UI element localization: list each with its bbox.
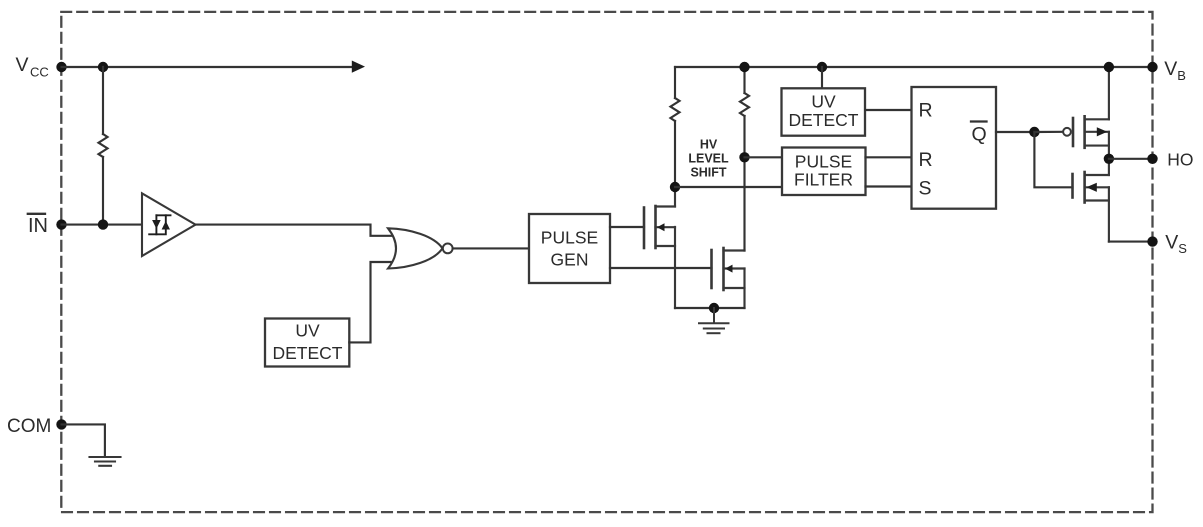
svg-text:S: S — [1178, 241, 1187, 256]
latch U3 (RRS latch) — [912, 87, 997, 209]
wire node A to PULSE FILTER S input — [675, 186, 782, 188]
wire buffer output to NOR input 1 (with jog) — [196, 225, 395, 236]
pin VS dot — [1147, 236, 1157, 246]
node B (Q2 drain) dot — [739, 152, 749, 162]
transistor Q4 (output NMOS) — [1073, 159, 1109, 242]
pin IN dot — [56, 219, 66, 229]
resistor R3 (VB rail to level-shift node B) — [743, 67, 745, 93]
node VB rail dot at UV DETECT — [817, 62, 827, 72]
svg-text:PULSE: PULSE — [541, 228, 598, 248]
U2 output inversion bubble — [443, 244, 453, 254]
wire Q4 source to VS — [1109, 241, 1153, 243]
svg-text:R: R — [919, 100, 933, 122]
svg-text:V: V — [1164, 58, 1177, 80]
svg-text:DETECT: DETECT — [273, 343, 343, 363]
svg-text:COM: COM — [7, 416, 51, 437]
wire UV DETECT to NOR input 2 — [349, 262, 394, 342]
node HO dot — [1104, 154, 1114, 164]
pin HO label — [1167, 149, 1193, 169]
pin VCC label — [16, 54, 49, 80]
node Q-bar junction dot — [1029, 127, 1039, 137]
pin VCC dot — [56, 62, 66, 72]
svg-text:SHIFT: SHIFT — [690, 166, 726, 180]
wire UV DETECT supply connection — [821, 67, 823, 89]
buffer U1 (schmitt trigger input buffer) — [142, 193, 196, 256]
pin IN label (overline IN) — [28, 215, 48, 237]
wire NOR output to PULSE GEN — [453, 247, 529, 249]
pin HO dot — [1147, 154, 1157, 164]
UV DETECT block (VB side) — [782, 88, 866, 135]
wire to Q3 gate bubble — [1034, 131, 1063, 133]
ground symbol (COM) — [90, 457, 121, 466]
wire VCC rail with arrow — [62, 66, 353, 68]
ground symbol (level shift) — [699, 308, 729, 333]
svg-text:B: B — [1177, 68, 1186, 83]
svg-text:LEVEL: LEVEL — [688, 152, 729, 166]
svg-text:V: V — [16, 54, 29, 76]
wire UV DETECT to latch R — [866, 109, 912, 111]
svg-text:HO: HO — [1167, 149, 1193, 169]
pin VS label — [1165, 232, 1187, 257]
wire COM to ground — [62, 424, 105, 456]
svg-text:FILTER: FILTER — [794, 169, 853, 189]
node VB rail dot at R3 — [739, 62, 749, 72]
wire PULSE GEN top output to Q1 gate — [610, 226, 644, 228]
resistor R1 (VCC to IN) — [102, 67, 104, 134]
svg-text:DETECT: DETECT — [789, 110, 859, 130]
svg-text:GEN: GEN — [551, 250, 589, 270]
label HV LEVEL SHIFT — [688, 138, 729, 180]
pin COM dot — [56, 419, 66, 429]
transistor Q2 (level-shift NMOS) — [712, 248, 745, 308]
svg-text:CC: CC — [30, 65, 49, 80]
U3 Q-bar overline — [971, 120, 987, 122]
pin VB label — [1164, 58, 1186, 83]
node A (Q1 drain) dot — [670, 182, 680, 192]
gate U2 (NOR gate) — [388, 228, 443, 268]
resistor R2 (VB rail to level-shift node) — [674, 67, 676, 98]
pin VB dot — [1147, 62, 1157, 72]
svg-text:R: R — [919, 149, 933, 171]
node ground junction dot — [709, 303, 719, 313]
Q3 gate inversion bubble — [1063, 128, 1071, 136]
wire PULSE FILTER to latch S — [866, 185, 912, 187]
wire Q-bar to Q4 gate — [1034, 132, 1072, 187]
node IN junction dot — [98, 219, 108, 229]
svg-text:UV: UV — [811, 91, 836, 111]
wire node B to PULSE FILTER R input — [745, 156, 783, 158]
svg-text:HV: HV — [700, 138, 718, 152]
transistor Q3 (output PMOS) — [1073, 67, 1109, 159]
wire Q-bar output — [996, 131, 1034, 133]
wire PULSE GEN bottom output to Q2 gate — [610, 267, 712, 269]
PULSE FILTER block — [782, 148, 866, 196]
PULSE GEN block — [529, 214, 610, 283]
svg-text:Q: Q — [972, 124, 987, 146]
transistor Q1 (level-shift NMOS) — [644, 187, 675, 308]
wire level-shift source ground rail — [675, 307, 745, 309]
UV DETECT block (VCC side) — [265, 319, 349, 367]
svg-text:V: V — [1165, 232, 1178, 254]
svg-text:PULSE: PULSE — [795, 151, 852, 171]
wire PULSE FILTER to latch R2 — [866, 156, 912, 158]
svg-text:UV: UV — [295, 321, 320, 341]
node VB rail dot at output stage — [1104, 62, 1114, 72]
hysteresis symbol inside U1 — [149, 215, 170, 234]
node VCC junction dot — [98, 62, 108, 72]
wire VB rail — [675, 66, 1153, 68]
svg-text:S: S — [919, 178, 932, 200]
wire IN to buffer — [62, 224, 143, 226]
pin COM label — [7, 416, 51, 437]
wire HO output — [1109, 158, 1153, 160]
svg-text:IN: IN — [28, 215, 48, 237]
